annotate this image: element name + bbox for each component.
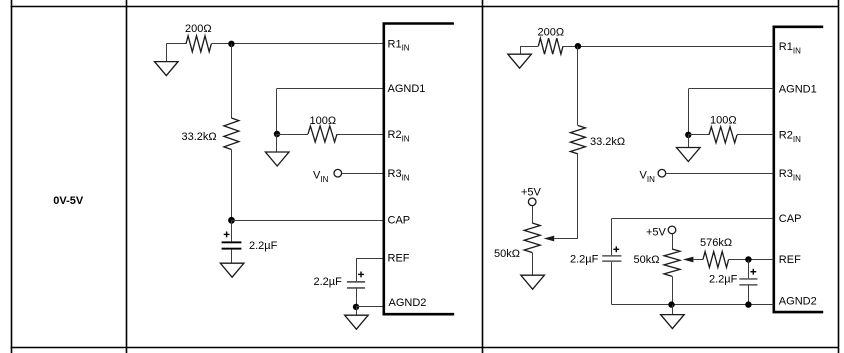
svg-text:+5V: +5V	[646, 227, 667, 239]
svg-text:2.2µF: 2.2µF	[249, 240, 278, 252]
svg-text:576kΩ: 576kΩ	[700, 237, 732, 249]
svg-text:33.2kΩ: 33.2kΩ	[182, 131, 217, 143]
svg-text:CAP: CAP	[779, 213, 802, 225]
svg-text:200Ω: 200Ω	[538, 27, 565, 39]
svg-text:50kΩ: 50kΩ	[634, 254, 660, 266]
svg-text:AGND1: AGND1	[779, 83, 817, 95]
svg-text:2.2µF: 2.2µF	[570, 254, 599, 266]
svg-text:AGND2: AGND2	[779, 296, 817, 308]
svg-text:2.2µF: 2.2µF	[314, 276, 343, 288]
svg-text:200Ω: 200Ω	[185, 23, 212, 35]
svg-text:100Ω: 100Ω	[710, 115, 737, 127]
svg-text:CAP: CAP	[388, 215, 411, 227]
svg-text:100Ω: 100Ω	[310, 115, 337, 127]
svg-text:REF: REF	[779, 254, 801, 266]
svg-text:REF: REF	[388, 253, 410, 265]
svg-text:50kΩ: 50kΩ	[494, 248, 520, 260]
svg-text:2.2µF: 2.2µF	[709, 273, 738, 285]
svg-text:AGND2: AGND2	[389, 297, 427, 309]
svg-text:AGND1: AGND1	[388, 83, 426, 95]
svg-text:0V-5V: 0V-5V	[53, 195, 84, 207]
svg-text:33.2kΩ: 33.2kΩ	[590, 136, 625, 148]
svg-text:+5V: +5V	[521, 186, 542, 198]
